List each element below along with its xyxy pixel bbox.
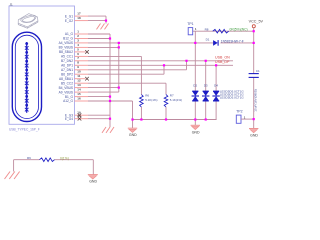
svg-text:2: 2 <box>77 34 79 38</box>
svg-text:D1: D1 <box>206 37 210 41</box>
svg-text:B4_VBUS: B4_VBUS <box>59 86 73 90</box>
svg-text:0R(5%)(NC): 0R(5%)(NC) <box>230 27 248 31</box>
svg-text:C1: C1 <box>256 69 260 73</box>
svg-text:J1: J1 <box>10 3 14 7</box>
svg-text:E_G1: E_G1 <box>65 14 73 18</box>
svg-text:11: 11 <box>77 74 81 78</box>
svg-text:R7: R7 <box>170 93 174 97</box>
svg-text:A8_SBU1: A8_SBU1 <box>59 77 73 81</box>
svg-text:E_G2: E_G2 <box>65 19 73 23</box>
svg-text:1N5819HW-7-F: 1N5819HW-7-F <box>221 40 244 44</box>
svg-text:16: 16 <box>77 96 81 100</box>
svg-text:1: 1 <box>77 29 79 33</box>
svg-text:TP1: TP1 <box>187 22 193 26</box>
svg-text:17: 17 <box>77 12 81 16</box>
svg-text:B6_DP2: B6_DP2 <box>61 72 73 76</box>
svg-text:13: 13 <box>77 83 81 87</box>
svg-text:8: 8 <box>77 61 79 65</box>
svg-text:B7_DN2: B7_DN2 <box>61 59 73 63</box>
svg-text:5: 5 <box>77 47 79 51</box>
svg-text:D3: D3 <box>204 83 208 87</box>
svg-text:GND: GND <box>129 133 137 137</box>
svg-text:B1_G: B1_G <box>65 95 74 99</box>
svg-text:A6_DP1: A6_DP1 <box>61 64 73 68</box>
svg-text:D4: D4 <box>214 83 218 87</box>
svg-text:6: 6 <box>77 52 79 56</box>
svg-text:USB_TYPEC_16P_F: USB_TYPEC_16P_F <box>9 127 40 131</box>
svg-text:USB_ON: USB_ON <box>215 56 230 60</box>
svg-text:A9_VBUS: A9_VBUS <box>59 90 73 94</box>
svg-text:B5_CC2: B5_CC2 <box>61 81 73 85</box>
svg-text:10uF/16V(0805): 10uF/16V(0805) <box>253 89 257 111</box>
svg-text:GND: GND <box>192 130 200 134</box>
svg-text:B8_SBU2: B8_SBU2 <box>59 50 73 54</box>
svg-text:A4_VBUS: A4_VBUS <box>59 41 73 45</box>
svg-text:14: 14 <box>77 88 81 92</box>
svg-text:D2: D2 <box>193 83 197 87</box>
svg-text:B12_G: B12_G <box>63 37 73 41</box>
svg-text:4: 4 <box>77 43 79 47</box>
svg-text:GND: GND <box>89 180 97 184</box>
svg-text:A12_G: A12_G <box>63 99 73 103</box>
svg-text:R8: R8 <box>205 28 209 32</box>
svg-text:A7_DN1: A7_DN1 <box>61 68 73 72</box>
svg-text:18: 18 <box>77 16 81 20</box>
svg-text:12: 12 <box>77 79 81 83</box>
svg-text:1: 1 <box>195 27 197 31</box>
svg-text:10: 10 <box>77 70 81 74</box>
svg-text:R9: R9 <box>27 156 31 160</box>
svg-text:5.1K(1%): 5.1K(1%) <box>170 98 182 102</box>
svg-text:5.1K(1%): 5.1K(1%) <box>145 98 157 102</box>
svg-text:B9_VBUS: B9_VBUS <box>59 46 73 50</box>
svg-text:USB_DP: USB_DP <box>215 60 230 64</box>
svg-text:LESD5D5.0CT1G: LESD5D5.0CT1G <box>220 96 245 100</box>
svg-text:A5_CC1: A5_CC1 <box>61 55 73 59</box>
svg-text:TP2: TP2 <box>236 109 242 113</box>
svg-text:A1_G: A1_G <box>65 32 74 36</box>
svg-text:VCC_5V: VCC_5V <box>249 19 264 23</box>
svg-text:15: 15 <box>77 92 81 96</box>
svg-text:R6: R6 <box>145 93 149 97</box>
svg-text:0(1%): 0(1%) <box>60 156 69 160</box>
svg-text:E_G4: E_G4 <box>65 117 73 121</box>
svg-text:GND: GND <box>250 134 258 138</box>
svg-text:9: 9 <box>77 65 79 69</box>
